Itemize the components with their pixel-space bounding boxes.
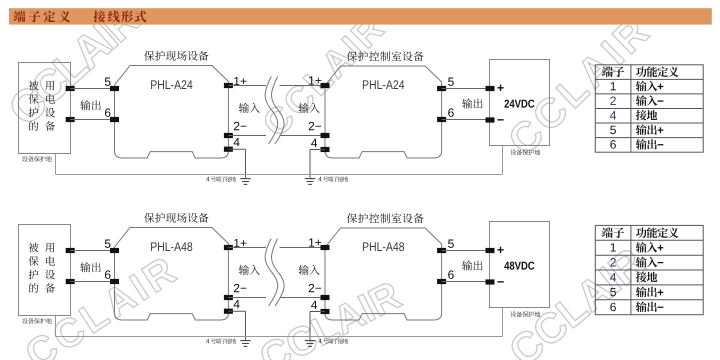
terminal U1 pin5 row1 — [110, 86, 119, 91]
protected equipment box (被保护用电设备) row1 — [19, 63, 71, 154]
pin label 2- device U4 — [309, 284, 321, 292]
supply label 48VDC — [504, 262, 534, 270]
ground symbol left row2 — [240, 341, 250, 347]
terminal U3 pin5 row2 — [110, 248, 119, 253]
label 4号端子接地 left row1 — [206, 177, 209, 181]
pin label 2- device U1 — [234, 122, 246, 130]
terminal U2 pin5 row1 — [437, 86, 446, 91]
label 输出 left row1 — [80, 100, 100, 110]
label 保护控制室设备 row2 — [347, 213, 424, 223]
ground symbol left row1 — [240, 179, 250, 185]
table 2 row pin 6 — [610, 303, 616, 311]
pin number 5 device U4 — [448, 240, 454, 248]
terminal box-out- row2 — [66, 279, 75, 284]
wire box to pin5 row1 — [70, 88, 115, 90]
label 输出 right row1 — [462, 98, 482, 108]
watermark CCLAIR 2 — [261, 14, 386, 139]
label 设备保护地 under supply row1 — [510, 149, 540, 155]
wire pin6 to supply- row2 — [442, 281, 490, 283]
wire pin4 U1 to ground row1 — [228, 148, 245, 150]
pin label 2- device U3 — [234, 284, 246, 292]
watermark CCLAIR 5 — [258, 280, 403, 360]
label 4号端子接地 right row1 — [318, 177, 321, 181]
terminal box-out+ row1 — [66, 86, 75, 91]
label 4号端子接地 right row2 — [318, 339, 321, 343]
wire box to pin6 row1 — [70, 119, 115, 121]
label 设备保护地 under supply row2 — [510, 311, 540, 317]
supply minus sign row2 — [497, 281, 503, 282]
label 设备保护地 under left box row2 — [22, 318, 52, 324]
table 1 header 功能定义 — [636, 67, 679, 78]
terminal U3 pin4 row2 — [224, 309, 233, 314]
wire 1+ link right segment row1 — [280, 85, 326, 87]
device U4 name PHL-A48 — [363, 242, 404, 251]
label 保护现场设备 row1 — [144, 51, 208, 61]
power supply 24VDC box row1 — [490, 60, 550, 146]
title text 端子定义 接线形式 — [14, 11, 147, 23]
table 1 header 端子 — [602, 66, 624, 77]
wire left box to ground bus row2 — [55, 316, 57, 337]
device U2 name PHL-A24 — [363, 80, 404, 89]
device U3 name PHL-A48 — [151, 242, 192, 251]
terminal definition table 2 grid — [595, 225, 703, 314]
pin number 6 device A row2 — [105, 270, 111, 278]
wire pin4 U3 to ground row2 — [228, 310, 245, 312]
wire 1+ link right segment row2 — [280, 247, 326, 249]
table 2 row pin 1 — [611, 243, 616, 251]
pin number 6 device U2 — [448, 108, 454, 116]
label 输入 left of break row1 — [239, 103, 260, 113]
box text 被保护的/用电设备 row2 — [28, 243, 55, 293]
table 1 row pin 1 — [611, 82, 616, 90]
isolator device U2 PHL-A24 (control room) row1 — [325, 66, 442, 158]
terminal U2 pin2- row1 — [321, 133, 330, 138]
terminal supply + row2 — [486, 248, 495, 253]
wire pin4 U2 to ground row1 — [310, 149, 325, 151]
label 输出 left row2 — [80, 262, 100, 272]
terminal U2 pin1+ row1 — [321, 83, 330, 88]
pin number 5 device A row1 — [105, 78, 111, 86]
wire pin6 to supply- row1 — [442, 119, 490, 121]
wire pin4 U4 to ground row2 — [310, 311, 325, 313]
wire 2- link right segment row2 — [280, 297, 326, 299]
wire left box to ground bus row1 — [55, 154, 57, 175]
pin label 1+ device U1 — [234, 77, 246, 85]
supply minus sign row1 — [497, 119, 503, 120]
watermark CCLAIR 1 — [6, 0, 142, 127]
label 设备保护地 under left box row1 — [22, 156, 52, 162]
table 1 row pin 4 — [610, 111, 616, 119]
label 输出 right row2 — [462, 260, 482, 270]
ground bus wire row2 — [56, 336, 503, 338]
watermark CCLAIR 4 — [23, 255, 178, 360]
ground symbol right row1 — [305, 179, 315, 185]
pin number 6 device U4 — [448, 270, 454, 278]
terminal supply + row1 — [486, 86, 495, 91]
power supply 48VDC box row2 — [490, 222, 550, 308]
wire 2- link left segment row1 — [228, 135, 266, 137]
white mask above title bar — [0, 0, 720, 8]
terminal U2 pin4 row1 — [321, 147, 330, 152]
wire 2- link right segment row1 — [280, 135, 326, 137]
terminal U4 pin6 row2 — [437, 279, 446, 284]
wire 1+ link left segment row1 — [228, 85, 266, 87]
wire 1+ link left segment row2 — [228, 247, 266, 249]
isolator device U1 PHL-A24 (field) row1 — [115, 66, 229, 159]
supply label 24VDC — [504, 100, 534, 108]
terminal U4 pin4 row2 — [321, 309, 330, 314]
terminal U3 pin1+ row2 — [224, 245, 233, 250]
terminal U1 pin4 row1 — [224, 147, 233, 152]
terminal box-out+ row2 — [66, 248, 75, 253]
terminal supply - row2 — [486, 279, 495, 284]
terminal definition table 1 grid — [595, 65, 703, 152]
wire supply to ground bus row1 — [502, 146, 504, 175]
terminal U4 pin5 row2 — [437, 248, 446, 253]
table 2 header 功能定义 — [636, 227, 679, 238]
pin number 6 device A row1 — [105, 108, 111, 116]
terminal U4 pin1+ row2 — [321, 245, 330, 250]
wire box to pin5 row2 — [70, 250, 115, 252]
table 2 row pin 5 — [610, 288, 616, 296]
terminal box-out- row1 — [66, 117, 75, 122]
table 2 header 端子 — [602, 227, 624, 238]
supply plus sign row2 — [497, 247, 503, 253]
terminal U2 pin6 row1 — [437, 117, 446, 122]
box text 被保护的/用电设备 row1 — [28, 81, 55, 131]
cable break symbol row1 — [265, 77, 284, 145]
terminal U1 pin2- row1 — [224, 133, 233, 138]
table 1 row pin 5 — [610, 126, 616, 134]
table 2 row pin 4 — [610, 273, 616, 281]
pin label 1+ device U2 — [309, 76, 321, 84]
wire pin5 to supply+ row2 — [442, 250, 490, 252]
watermark CCLAIR 3 — [506, 16, 650, 157]
ground bus wire row1 — [56, 174, 503, 176]
watermark CCLAIR 6 — [507, 246, 647, 360]
label 输入 left of break row2 — [239, 265, 260, 275]
table 2 row pin 2 — [610, 258, 615, 266]
wire 2- link left segment row2 — [228, 297, 266, 299]
isolator device U3 PHL-A48 (field) row2 — [115, 228, 229, 321]
terminal U4 pin2- row2 — [321, 295, 330, 300]
pin label 1+ device U4 — [309, 238, 321, 246]
pin label 1+ device U3 — [234, 239, 246, 247]
label 输入 right of break row1 — [299, 103, 320, 113]
label 4号端子接地 left row2 — [206, 339, 209, 343]
label 输入 right of break row2 — [299, 265, 320, 275]
terminal U3 pin6 row2 — [110, 279, 119, 284]
protected equipment box (被保护用电设备) row2 — [19, 225, 71, 316]
pin number 5 device U2 — [448, 78, 454, 86]
terminal U3 pin2- row2 — [224, 295, 233, 300]
device U1 name PHL-A24 — [151, 80, 192, 89]
pin label 2- device U2 — [309, 122, 321, 130]
pin label 4 device U2 — [311, 139, 317, 147]
pin label 4 device U4 — [311, 301, 317, 309]
terminal U1 pin1+ row1 — [224, 83, 233, 88]
title bar — [9, 8, 712, 24]
table 1 row pin 2 — [610, 97, 615, 105]
pin label 4 device U3 — [234, 300, 240, 308]
table 1 row pin 6 — [610, 140, 616, 148]
pin label 4 device U1 — [234, 138, 240, 146]
pin number 5 device A row2 — [105, 240, 111, 248]
wire pin5 to supply+ row1 — [442, 88, 490, 90]
label 保护控制室设备 row1 — [347, 51, 424, 61]
label 保护现场设备 row2 — [144, 213, 208, 223]
wire box to pin6 row2 — [70, 281, 115, 283]
isolator device U4 PHL-A48 (control room) row2 — [325, 228, 442, 320]
ground symbol right row2 — [305, 341, 315, 347]
supply plus sign row1 — [497, 85, 503, 91]
terminal U1 pin6 row1 — [110, 117, 119, 122]
wire supply to ground bus row2 — [502, 308, 504, 337]
cable break symbol row2 — [265, 239, 284, 307]
terminal supply - row1 — [486, 117, 495, 122]
